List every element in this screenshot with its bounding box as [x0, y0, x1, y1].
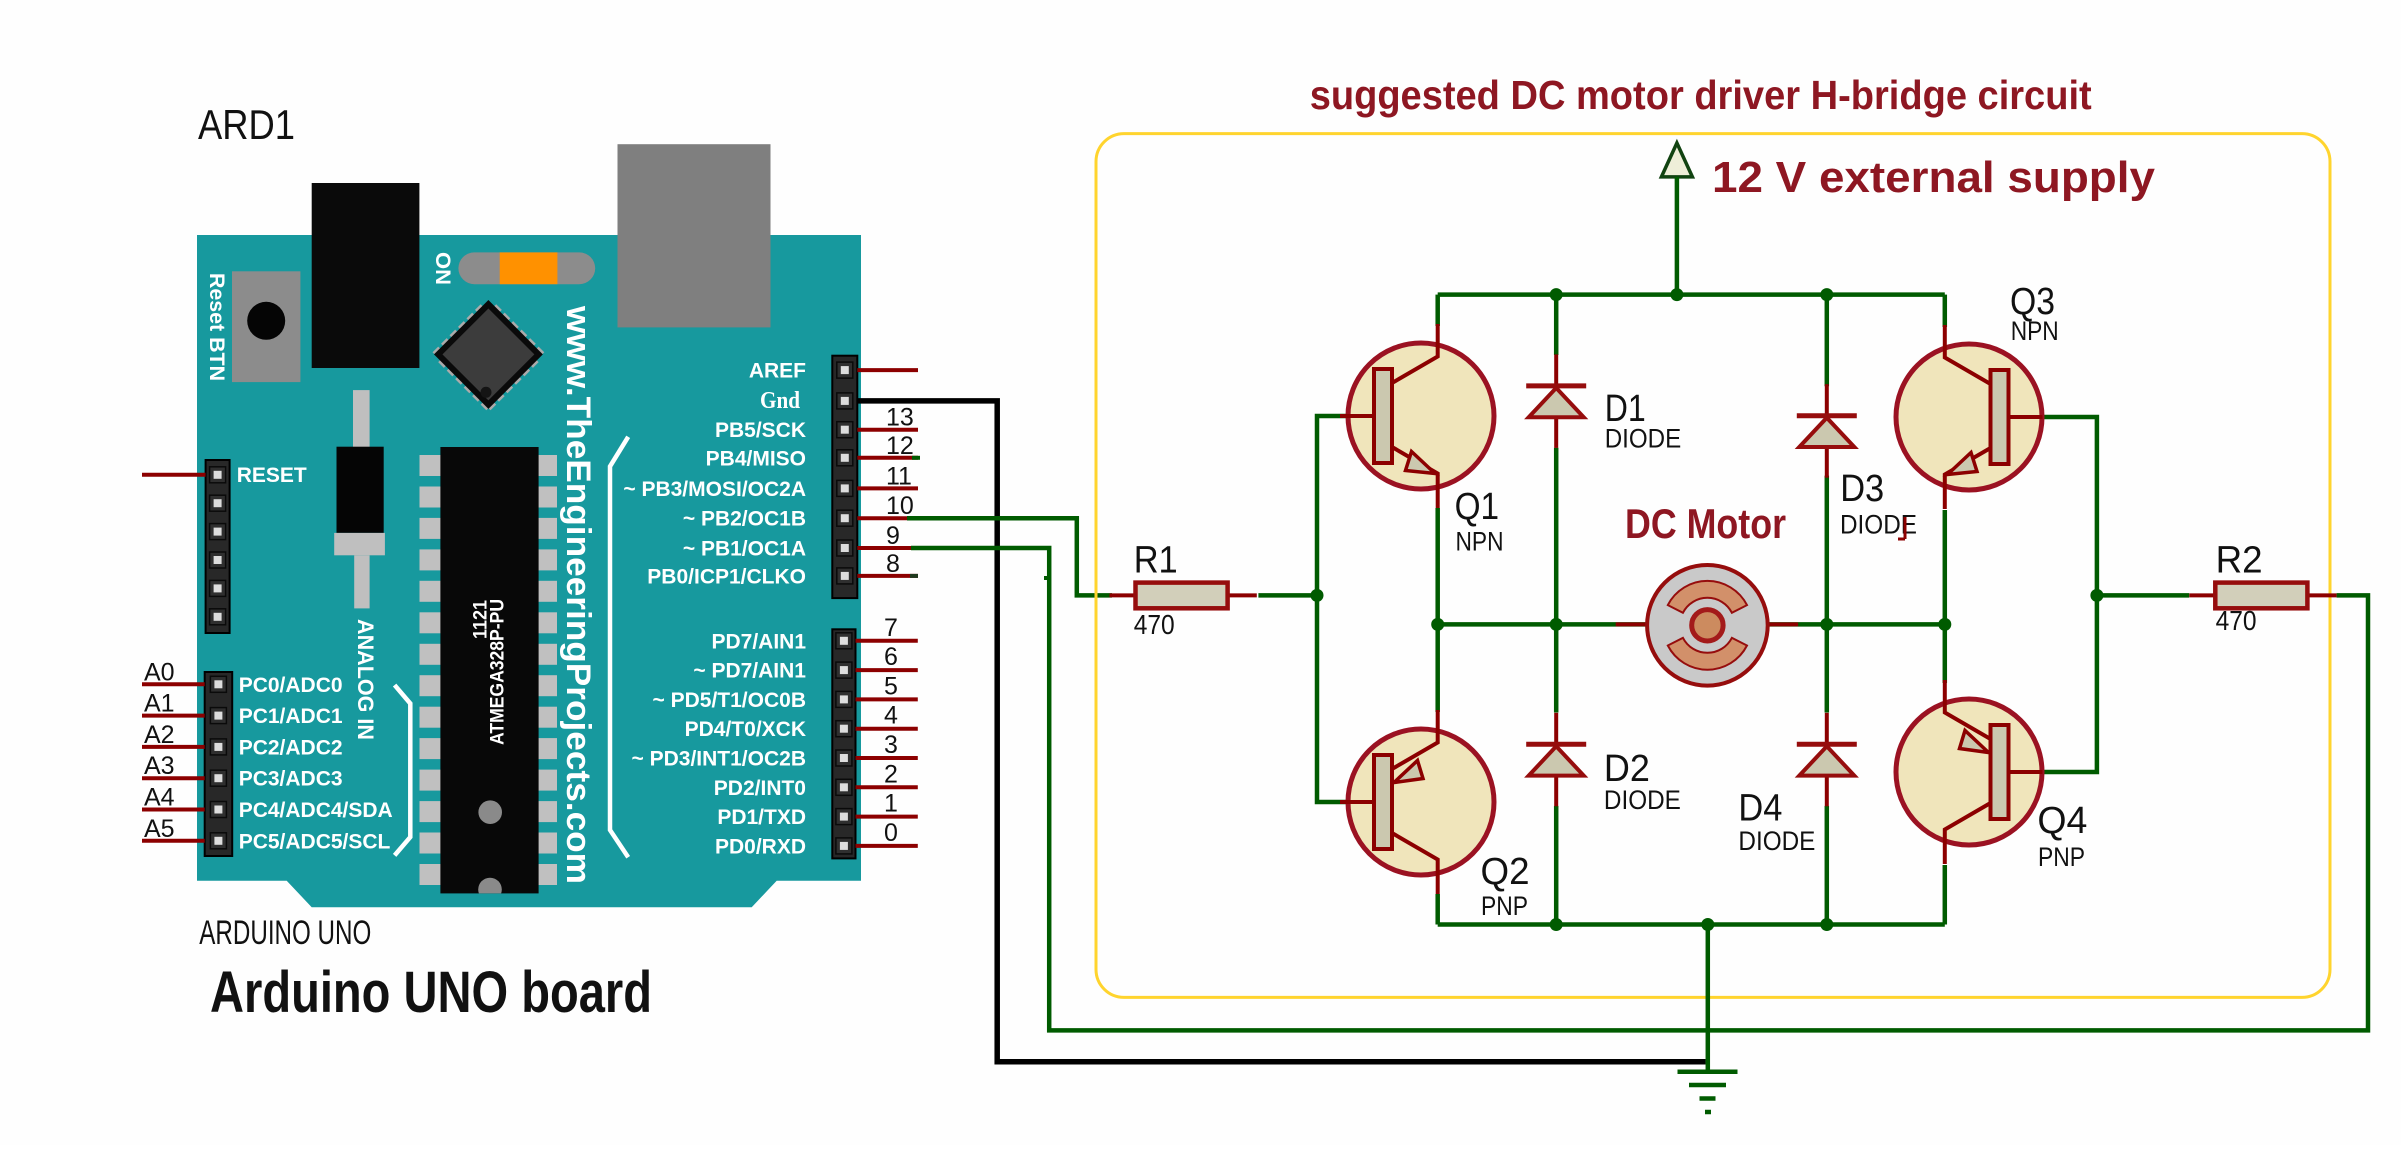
wire: D2 bottom [1554, 806, 1559, 925]
svg-text:~ PB1/OC1A: ~ PB1/OC1A [683, 538, 806, 561]
junction node [1550, 288, 1563, 301]
wire: Q4 collector drop [1943, 865, 1948, 925]
pin group bracket analog [395, 685, 411, 855]
svg-text:R2: R2 [2216, 540, 2263, 582]
pin stub digital 8 [857, 574, 918, 578]
wire: D3 bottom [1825, 476, 1830, 625]
svg-text:3: 3 [884, 731, 898, 759]
wire: R2 to base node [2097, 593, 2189, 598]
reset button [232, 271, 300, 382]
svg-text:Reset BTN: Reset BTN [205, 273, 228, 381]
ground symbol [1678, 925, 1738, 1113]
svg-text:8: 8 [886, 550, 900, 578]
wire: Q3 emitter drop [1943, 510, 1948, 624]
pin stub digital 2 [856, 785, 918, 789]
svg-text:~ PB3/MOSI/OC2A: ~ PB3/MOSI/OC2A [623, 478, 806, 501]
junction node [1670, 288, 1683, 301]
svg-text:PB4/MISO: PB4/MISO [706, 447, 806, 470]
wire: Q1 emitter drop [1435, 508, 1440, 624]
transistor Q2 (PNP) [1348, 729, 1494, 875]
pin stub digital 6 [856, 668, 918, 672]
junction node [1820, 618, 1833, 631]
12V power terminal arrow [1661, 143, 1692, 177]
svg-text:www.TheEngineeringProjects.com: www.TheEngineeringProjects.com [559, 305, 597, 884]
regulator / capacitor component [353, 390, 370, 448]
pin stub A5 [142, 839, 205, 843]
H-bridge frame (yellow) [1096, 134, 2330, 998]
board outline [197, 235, 861, 907]
pin stub digital 5 [856, 697, 918, 701]
red artifact near D3 [1904, 517, 1907, 539]
svg-text:2: 2 [884, 760, 898, 788]
wire: R1 output to base node [1258, 593, 1317, 598]
svg-text:~ PB2/OC1B: ~ PB2/OC1B [683, 508, 806, 531]
svg-text:11: 11 [886, 462, 912, 490]
svg-text:ARDUINO UNO: ARDUINO UNO [199, 914, 371, 952]
svg-text:1: 1 [884, 790, 898, 818]
svg-text:NPN: NPN [1456, 527, 1504, 557]
wire: D4 top [1825, 624, 1830, 712]
wire: Q2 collector drop [1435, 894, 1440, 925]
pin stub digital 3 [856, 756, 918, 760]
svg-text:DC Motor: DC Motor [1625, 500, 1786, 547]
diode D2 [1526, 713, 1586, 807]
pin stub digital 0 [856, 844, 918, 848]
pin stub digital 13 [857, 428, 918, 432]
diode D1 [1526, 354, 1586, 448]
junction node [2090, 589, 2103, 602]
svg-text:PD0/RXD: PD0/RXD [715, 835, 806, 858]
transistor Q3 (NPN, mirrored) [1896, 344, 2042, 490]
svg-text:12: 12 [886, 432, 914, 460]
wire: Gnd pin to ground (black) [857, 401, 1705, 1062]
digital pin header lower [832, 629, 855, 858]
wire: pin 10 to R1 [907, 518, 1112, 595]
svg-text:ANALOG IN: ANALOG IN [353, 619, 378, 740]
svg-text:PC1/ADC1: PC1/ADC1 [239, 705, 343, 728]
svg-text:6: 6 [884, 643, 898, 671]
wire: D4 bottom [1825, 806, 1830, 925]
svg-text:D2: D2 [1604, 748, 1650, 790]
wire: top rail left drop to Q1 [1435, 295, 1440, 326]
SMD chip (diamond) [430, 296, 546, 412]
wire: base link Q3-Q4 [2042, 417, 2097, 772]
svg-text:PNP: PNP [1481, 891, 1528, 921]
svg-text:4: 4 [884, 702, 898, 730]
svg-text:PC0/ADC0: PC0/ADC0 [239, 674, 343, 697]
svg-text:NPN: NPN [2011, 316, 2059, 346]
svg-text:470: 470 [1134, 609, 1175, 640]
power LED ON [458, 252, 595, 284]
svg-text:5: 5 [884, 672, 898, 700]
wire: D2 top [1554, 624, 1559, 712]
junction node [1431, 618, 1444, 631]
pin stub A3 [142, 776, 205, 780]
wire: D1 bottom [1554, 448, 1559, 625]
svg-text:470: 470 [2216, 605, 2257, 636]
USB connector [618, 144, 771, 327]
junction node [1938, 618, 1951, 631]
wire: supply to top rail [1675, 177, 1680, 295]
power jack [312, 183, 420, 368]
digital pin header upper [832, 356, 857, 598]
svg-text:suggested DC motor driver H-br: suggested DC motor driver H-bridge circu… [1310, 72, 2092, 118]
wire: Q4 emitter riser [1943, 624, 1948, 683]
pin group bracket right [610, 437, 628, 858]
junction node [1820, 288, 1833, 301]
wire: Q2 emitter riser [1435, 624, 1440, 712]
pin stub digital 1 [856, 815, 918, 819]
svg-text:ATMEGA328P-PU: ATMEGA328P-PU [488, 599, 509, 745]
svg-text:PNP: PNP [2038, 842, 2085, 872]
svg-text:A1: A1 [144, 690, 175, 718]
svg-text:PB5/SCK: PB5/SCK [715, 419, 806, 442]
svg-text:~ PD7/AIN1: ~ PD7/AIN1 [693, 660, 806, 683]
reset pin header [206, 460, 230, 633]
pin stub AREF [857, 368, 918, 372]
svg-text:PC3/ADC3: PC3/ADC3 [239, 768, 343, 791]
pin stub digital 12 [857, 456, 918, 460]
wire: base link Q1-Q2 [1317, 416, 1349, 802]
pin stub digital 9 [857, 546, 911, 550]
svg-text:Q4: Q4 [2037, 800, 2087, 842]
svg-text:ON: ON [431, 252, 454, 285]
wire: pin 9 to R2 [911, 548, 2368, 1030]
svg-text:AREF: AREF [749, 360, 806, 383]
pin stub RESET [142, 473, 206, 477]
svg-text:~ PD3/INT1/OC2B: ~ PD3/INT1/OC2B [632, 748, 806, 771]
wire: D1 top [1554, 295, 1559, 355]
pin stub A2 [142, 745, 205, 749]
pin stub digital 4 [856, 727, 918, 731]
svg-text:A2: A2 [144, 721, 175, 749]
svg-text:PD7/AIN1: PD7/AIN1 [711, 630, 806, 653]
pin stub A1 [142, 714, 205, 718]
resistor R1 [1110, 593, 1136, 597]
svg-text:Q2: Q2 [1481, 851, 1530, 893]
transistor Q1 (NPN) [1348, 343, 1494, 489]
pin stub A0 [142, 682, 205, 686]
svg-text:R1: R1 [1134, 540, 1178, 582]
pin stub digital 10 [857, 516, 907, 520]
Arduino UNO board ARD1 [197, 144, 861, 907]
svg-text:A5: A5 [144, 815, 175, 843]
diode D3 [1797, 384, 1857, 478]
pin stub digital 7 [856, 639, 918, 643]
svg-text:DIODE: DIODE [1605, 424, 1682, 454]
svg-text:13: 13 [886, 404, 914, 432]
svg-text:A0: A0 [144, 658, 175, 686]
pin stub digital 11 [857, 486, 918, 490]
ATMEGA328P DIP chip U1 [420, 455, 441, 476]
svg-text:Arduino UNO board: Arduino UNO board [210, 960, 652, 1025]
svg-text:PC2/ADC2: PC2/ADC2 [239, 736, 343, 759]
svg-text:Gnd: Gnd [760, 388, 801, 414]
svg-text:PB0/ICP1/CLKO: PB0/ICP1/CLKO [647, 565, 806, 588]
wire: top rail [1438, 292, 1945, 297]
svg-text:RESET: RESET [237, 464, 307, 487]
svg-text:D4: D4 [1738, 788, 1782, 830]
svg-text:PC4/ADC4/SDA: PC4/ADC4/SDA [239, 799, 393, 822]
svg-text:A4: A4 [144, 784, 175, 812]
svg-text:~ PD5/T1/OC0B: ~ PD5/T1/OC0B [653, 689, 806, 712]
svg-text:DIODE: DIODE [1604, 785, 1681, 815]
svg-text:DIODE: DIODE [1738, 826, 1815, 856]
DC motor [1616, 565, 1798, 686]
svg-text:A3: A3 [144, 752, 175, 780]
svg-text:Q1: Q1 [1455, 486, 1500, 528]
analog pin header [205, 672, 233, 856]
wire: D3 top [1825, 295, 1830, 387]
svg-text:PD1/TXD: PD1/TXD [717, 806, 806, 829]
transistor Q4 (PNP, mirrored) [1896, 699, 2042, 845]
wire: bottom rail [1438, 922, 1945, 927]
junction node [1701, 918, 1714, 931]
junction node [1550, 918, 1563, 931]
junction node [1820, 918, 1833, 931]
svg-text:PC5/ADC5/SCL: PC5/ADC5/SCL [239, 830, 391, 853]
svg-text:ARD1: ARD1 [198, 101, 295, 148]
wire: motor rail [1438, 622, 1945, 627]
junction node [1311, 589, 1324, 602]
junction node [1550, 618, 1563, 631]
pin stub A4 [142, 808, 205, 812]
resistor R2 [2189, 593, 2215, 597]
svg-text:PD2/INT0: PD2/INT0 [714, 777, 806, 800]
svg-text:7: 7 [884, 614, 898, 642]
svg-text:0: 0 [884, 819, 898, 847]
pin stub tip detail [912, 456, 920, 460]
svg-text:PD4/T0/XCK: PD4/T0/XCK [685, 718, 806, 741]
svg-text:12 V external supply: 12 V external supply [1712, 153, 2156, 202]
diode D4 [1797, 713, 1857, 807]
svg-text:9: 9 [886, 522, 900, 550]
wire: top rail right drop to Q3 [1943, 295, 1948, 327]
svg-text:D3: D3 [1840, 468, 1884, 510]
